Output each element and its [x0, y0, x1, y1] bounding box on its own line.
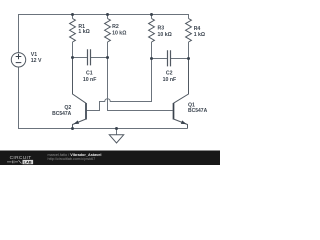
voltage source V1 circle	[11, 53, 25, 67]
svg-text:12 V: 12 V	[31, 58, 42, 64]
wire R3 top lead	[151, 15, 153, 19]
V1 plus sign	[16, 54, 22, 60]
transistor Q2 emitter arrow	[73, 120, 79, 124]
wire R4 bottom lead	[188, 42, 190, 59]
wire top rail with V1 stub and R4 top lead	[19, 15, 189, 53]
node dot top rail R1	[71, 13, 74, 16]
svg-text:10 kΩ: 10 kΩ	[158, 32, 172, 38]
node dot Q2 emitter on bottom rail	[71, 127, 74, 130]
node dot node D: R4/C2/Q1 collector	[187, 57, 190, 60]
wire R1 top lead	[72, 15, 74, 19]
V1 minus sign	[16, 62, 22, 64]
transistor Q1 body bar (NPN)	[173, 103, 175, 120]
svg-text:C1: C1	[86, 71, 93, 77]
node dot node B: R2/C1 right	[106, 56, 109, 59]
svg-text:LAB: LAB	[24, 160, 32, 165]
resistor R2 zigzag	[105, 19, 111, 43]
wire C2 left	[152, 58, 168, 60]
wire ground stem	[116, 129, 118, 135]
node dot node A: R1/C1/Q2 collector	[71, 56, 74, 59]
svg-text:BC547A: BC547A	[52, 111, 72, 117]
footer CircuitLab logo wire squiggle	[7, 160, 22, 163]
transistor Q1 collector lead and diagonal	[174, 59, 189, 104]
transistor Q1 emitter arrow	[181, 120, 187, 124]
wire node C: R3 bottom down, across with hop over node B wire, to Q2 base	[87, 59, 152, 111]
svg-text:1 kΩ: 1 kΩ	[194, 32, 205, 38]
svg-text:10 nF: 10 nF	[163, 77, 177, 83]
wire R2 top lead	[107, 15, 109, 19]
svg-text:10 nF: 10 nF	[83, 77, 97, 83]
transistor Q2 emitter diagonal and stub	[73, 119, 87, 129]
wire node B: R2 bottom down then across to Q1 base	[108, 58, 173, 111]
resistor R3 zigzag	[149, 19, 155, 43]
capacitor C2 plates	[168, 50, 171, 66]
node dot node C: R3/C2 left	[150, 57, 153, 60]
wire R1 bottom lead to node A	[72, 42, 74, 58]
svg-text:C2: C2	[166, 70, 173, 76]
resistor R1 zigzag	[70, 19, 76, 43]
transistor Q2 body bar (mirrored NPN)	[85, 103, 87, 120]
svg-text:http://circuitlab.com/c/pwk67: http://circuitlab.com/c/pwk67	[48, 157, 96, 161]
wire C1 left	[73, 57, 88, 59]
svg-text:1 kΩ: 1 kΩ	[78, 29, 89, 35]
svg-text:BC547A: BC547A	[188, 108, 208, 114]
svg-text:10 kΩ: 10 kΩ	[112, 31, 126, 37]
wire C1 right	[91, 57, 108, 59]
wire V1 bottom stub and bottom rail	[19, 67, 188, 128]
transistor Q1 emitter diagonal and stub	[174, 119, 188, 129]
node dot ground on bottom rail	[115, 127, 118, 130]
resistor R4 zigzag	[186, 19, 192, 43]
wire R2 bottom lead	[107, 42, 109, 58]
wire C2 right	[171, 58, 189, 60]
svg-text:R3: R3	[158, 26, 165, 32]
node dot top rail R2	[106, 13, 109, 16]
svg-text:V1: V1	[31, 52, 37, 58]
ground symbol	[109, 135, 123, 143]
node dot top rail R3	[150, 13, 153, 16]
footer bar	[0, 151, 220, 166]
svg-text:R2: R2	[112, 24, 119, 30]
capacitor C1 plates	[88, 49, 91, 65]
svg-text:Q2: Q2	[64, 105, 71, 111]
wire R3 bottom lead	[151, 42, 153, 59]
transistor Q2 collector lead and diagonal	[73, 58, 87, 104]
footer CircuitLab logo LAB block	[23, 160, 34, 164]
